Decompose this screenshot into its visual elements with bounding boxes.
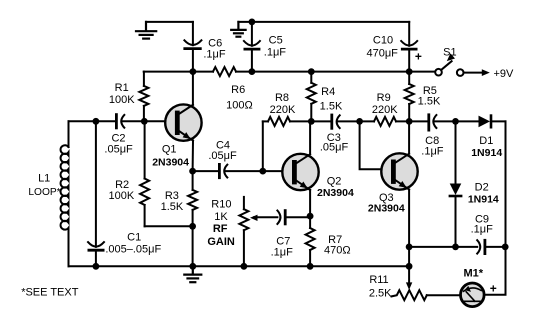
svg-text:470Ω: 470Ω bbox=[324, 245, 351, 257]
diode D2 bbox=[450, 184, 462, 196]
wire C7 wiper line with arrow bbox=[254, 216, 277, 218]
svg-text:+: + bbox=[490, 281, 497, 295]
capacitor C10 bbox=[401, 41, 417, 46]
wire emitter rail to C4 bbox=[193, 170, 220, 172]
svg-text:220K: 220K bbox=[372, 104, 398, 116]
potentiometer R10 bbox=[243, 197, 245, 209]
ground top-middle bbox=[231, 22, 245, 37]
svg-text:+9V: +9V bbox=[493, 68, 514, 80]
wire C1 branch bbox=[95, 121, 97, 247]
svg-text:+: + bbox=[415, 49, 422, 63]
resistor R5 bbox=[408, 72, 410, 84]
resistor R3 bbox=[192, 171, 194, 190]
resistor R7 bbox=[306, 228, 315, 250]
svg-text:S1: S1 bbox=[443, 46, 456, 58]
wire C6 bottom lead bbox=[192, 50, 194, 72]
svg-text:.05μF: .05μF bbox=[104, 144, 133, 156]
potentiometer R11 wiper arrow bbox=[408, 266, 410, 283]
wire Q3 collector bbox=[408, 121, 410, 153]
svg-text:.05μF: .05μF bbox=[208, 150, 237, 162]
wire C4 to Q2 base bbox=[225, 170, 292, 172]
capacitor C1 bbox=[88, 242, 104, 247]
svg-text:R11: R11 bbox=[369, 274, 388, 286]
svg-text:C10: C10 bbox=[373, 35, 393, 47]
capacitor C8 bbox=[427, 115, 430, 130]
transistor Q3 bbox=[381, 153, 417, 190]
svg-text:1N914: 1N914 bbox=[468, 194, 499, 206]
svg-text:.1μF: .1μF bbox=[271, 247, 294, 259]
meter M1 bbox=[461, 283, 485, 307]
wire C3 to R9 bbox=[337, 120, 374, 122]
svg-text:.1μF: .1μF bbox=[203, 48, 226, 60]
wire Q3 emitter down bbox=[408, 190, 410, 267]
wire Q2 collector bbox=[309, 121, 311, 154]
svg-text:470μF: 470μF bbox=[366, 48, 398, 60]
resistor R6 bbox=[213, 67, 236, 76]
wire main top rail bbox=[144, 71, 213, 73]
svg-text:2N3904: 2N3904 bbox=[317, 187, 354, 199]
svg-text:R1: R1 bbox=[115, 82, 129, 94]
wire C7 right lead bbox=[285, 216, 310, 218]
wire Q1 collector bbox=[192, 72, 194, 105]
wire Q1 emitter bbox=[192, 141, 194, 172]
svg-text:D2: D2 bbox=[475, 181, 489, 193]
potentiometer R11 bbox=[392, 290, 427, 300]
wire C5 bottom lead bbox=[251, 50, 253, 71]
capacitor C5 bbox=[244, 41, 260, 46]
wire +9V arrow bbox=[464, 72, 484, 74]
capacitor C6 bbox=[184, 40, 201, 45]
svg-text:R9: R9 bbox=[377, 92, 391, 104]
resistor R4 bbox=[310, 72, 312, 83]
resistor R9 bbox=[374, 117, 396, 126]
svg-text:R8: R8 bbox=[275, 92, 289, 104]
svg-text:Q1: Q1 bbox=[162, 144, 177, 156]
wire Q3 base branch bbox=[360, 121, 392, 169]
capacitor C3 bbox=[330, 115, 333, 128]
wire right vertical bbox=[484, 121, 505, 294]
svg-text:Q2: Q2 bbox=[327, 175, 342, 187]
wire C9 rail bbox=[409, 246, 477, 248]
svg-text:2N3904: 2N3904 bbox=[368, 203, 405, 215]
svg-text:220K: 220K bbox=[270, 104, 296, 116]
svg-text:*SEE TEXT: *SEE TEXT bbox=[21, 286, 79, 298]
wire bottom rail bbox=[69, 265, 410, 267]
svg-text:L1: L1 bbox=[38, 172, 50, 184]
wire Q2 emitter bbox=[309, 190, 311, 216]
ground bottom bbox=[184, 266, 201, 282]
svg-text:100Ω: 100Ω bbox=[226, 100, 253, 112]
wire R8 branch vertical bbox=[262, 121, 264, 171]
resistor R1 bbox=[143, 72, 145, 86]
capacitor C4 bbox=[218, 164, 221, 177]
capacitor C7 bbox=[277, 211, 280, 224]
wire top rail to C10 bbox=[238, 21, 409, 23]
wire C1 bottom lead bbox=[95, 252, 97, 267]
svg-text:RF: RF bbox=[213, 223, 228, 235]
svg-text:1.5K: 1.5K bbox=[161, 201, 184, 213]
svg-text:M1*: M1* bbox=[464, 268, 484, 280]
svg-text:R4: R4 bbox=[321, 86, 335, 98]
wire C5 top lead bbox=[251, 22, 253, 46]
svg-text:D1: D1 bbox=[479, 135, 493, 147]
wire top-left ground run to C6 bbox=[146, 21, 193, 23]
wire R2 bottom jog bbox=[145, 225, 193, 227]
svg-text:2.5K: 2.5K bbox=[369, 287, 392, 299]
capacitor C2 bbox=[115, 115, 118, 128]
svg-text:1.5K: 1.5K bbox=[418, 96, 441, 108]
wire C10 bottom lead bbox=[408, 50, 410, 71]
transistor Q1 bbox=[165, 104, 201, 141]
svg-text:100K: 100K bbox=[109, 94, 135, 106]
svg-text:R6: R6 bbox=[231, 84, 245, 96]
svg-text:.1μF: .1μF bbox=[421, 145, 444, 157]
svg-text:.1μF: .1μF bbox=[471, 223, 494, 235]
svg-text:1.5K: 1.5K bbox=[320, 100, 343, 112]
wire C9 right lead bbox=[485, 246, 506, 248]
wire D2 bottom lead bbox=[455, 196, 457, 247]
diode D1 bbox=[479, 116, 491, 128]
svg-text:C7: C7 bbox=[276, 235, 290, 247]
svg-text:.1μF: .1μF bbox=[264, 46, 287, 58]
wire base rail left bbox=[69, 120, 117, 122]
svg-text:GAIN: GAIN bbox=[207, 236, 235, 248]
svg-text:R10: R10 bbox=[211, 198, 231, 210]
ground top-left bbox=[136, 22, 156, 39]
capacitor C9 bbox=[477, 240, 480, 253]
resistor R2 bbox=[144, 121, 146, 178]
svg-text:1K: 1K bbox=[214, 211, 228, 223]
svg-text:C1: C1 bbox=[127, 232, 141, 244]
svg-text:1N914: 1N914 bbox=[471, 147, 502, 159]
resistor R8 bbox=[263, 120, 268, 122]
transistor Q2 bbox=[282, 154, 318, 191]
wire top rail right of R6 bbox=[236, 71, 435, 73]
wire C6 top lead bbox=[192, 22, 194, 45]
switch S1 bbox=[435, 69, 442, 76]
wire D2 branch bbox=[455, 121, 457, 183]
svg-text:LOOP*: LOOP* bbox=[28, 187, 60, 198]
svg-text:C5: C5 bbox=[269, 35, 283, 47]
wire C10 top lead bbox=[408, 22, 410, 46]
svg-text:.05μF: .05μF bbox=[320, 141, 349, 153]
svg-text:2N3904: 2N3904 bbox=[152, 157, 189, 169]
svg-text:100K: 100K bbox=[109, 190, 135, 202]
wire D1 to right corner bbox=[491, 120, 506, 122]
wire C2 to Q1 base bbox=[122, 120, 175, 122]
svg-text:.005–.05μF: .005–.05μF bbox=[105, 244, 161, 256]
wire C8 to D1 bbox=[434, 120, 479, 122]
inductor L1 bbox=[68, 121, 70, 147]
